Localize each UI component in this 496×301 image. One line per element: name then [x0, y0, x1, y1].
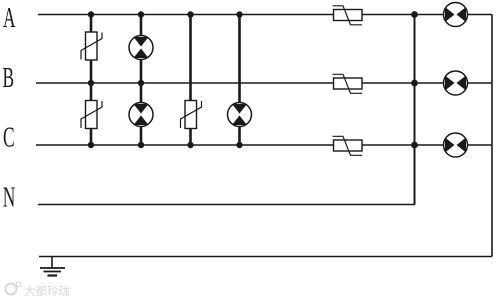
wire phase C bus — [36, 144, 492, 146]
varistor RV1 A-B — [81, 32, 102, 60]
node B3 — [411, 80, 418, 87]
node A3 — [187, 11, 193, 17]
node C4 — [236, 142, 242, 148]
svg-text:大都玲珑: 大都玲珑 — [24, 284, 70, 298]
gas discharge tube GD5 line B — [444, 71, 468, 95]
wire right earth drop — [491, 15, 493, 257]
node A2 — [138, 11, 144, 17]
varistor RV6 series line C — [333, 136, 363, 155]
svg-text:C: C — [3, 122, 15, 153]
svg-text:N: N — [3, 182, 16, 213]
node C5 — [411, 142, 418, 149]
svg-text:A: A — [3, 3, 16, 34]
varistor RV4 series line A — [333, 6, 363, 25]
wire column3 from A crossing B — [189, 15, 192, 101]
svg-text:B: B — [2, 63, 14, 94]
wire phase A bus — [38, 14, 492, 16]
node B1 — [88, 80, 94, 86]
wire junction column to N — [414, 15, 416, 205]
wire neutral N bus — [38, 204, 415, 206]
varistor RV5 series line B — [333, 74, 363, 93]
wire column4 from A crossing B — [238, 15, 241, 103]
wire column1 B-C stubs — [90, 83, 93, 101]
watermark logo — [6, 282, 71, 298]
varistor RV3 A-C — [181, 101, 202, 129]
node A5 — [411, 11, 418, 18]
node C2 — [138, 142, 144, 148]
ground — [40, 257, 65, 276]
node C3 — [187, 142, 193, 148]
node A1 — [88, 11, 94, 17]
wire column2 A-B stubs — [140, 15, 143, 37]
wire column1 A-B stubs — [90, 15, 93, 33]
gas discharge tube GD2 B-C — [129, 103, 153, 127]
wire column2 B-C stubs — [140, 83, 143, 103]
gas discharge tube GD6 line C — [444, 133, 468, 157]
gas discharge tube GD3 A-C — [228, 103, 252, 127]
wire earth bus — [39, 256, 492, 258]
varistor RV2 B-C — [81, 101, 102, 129]
gas discharge tube GD4 line A — [444, 3, 468, 27]
node C1 — [88, 142, 94, 148]
node B2 — [138, 80, 144, 86]
gas discharge tube GD1 A-B — [129, 36, 153, 60]
node A4 — [236, 11, 242, 17]
wire phase B bus — [36, 82, 492, 84]
